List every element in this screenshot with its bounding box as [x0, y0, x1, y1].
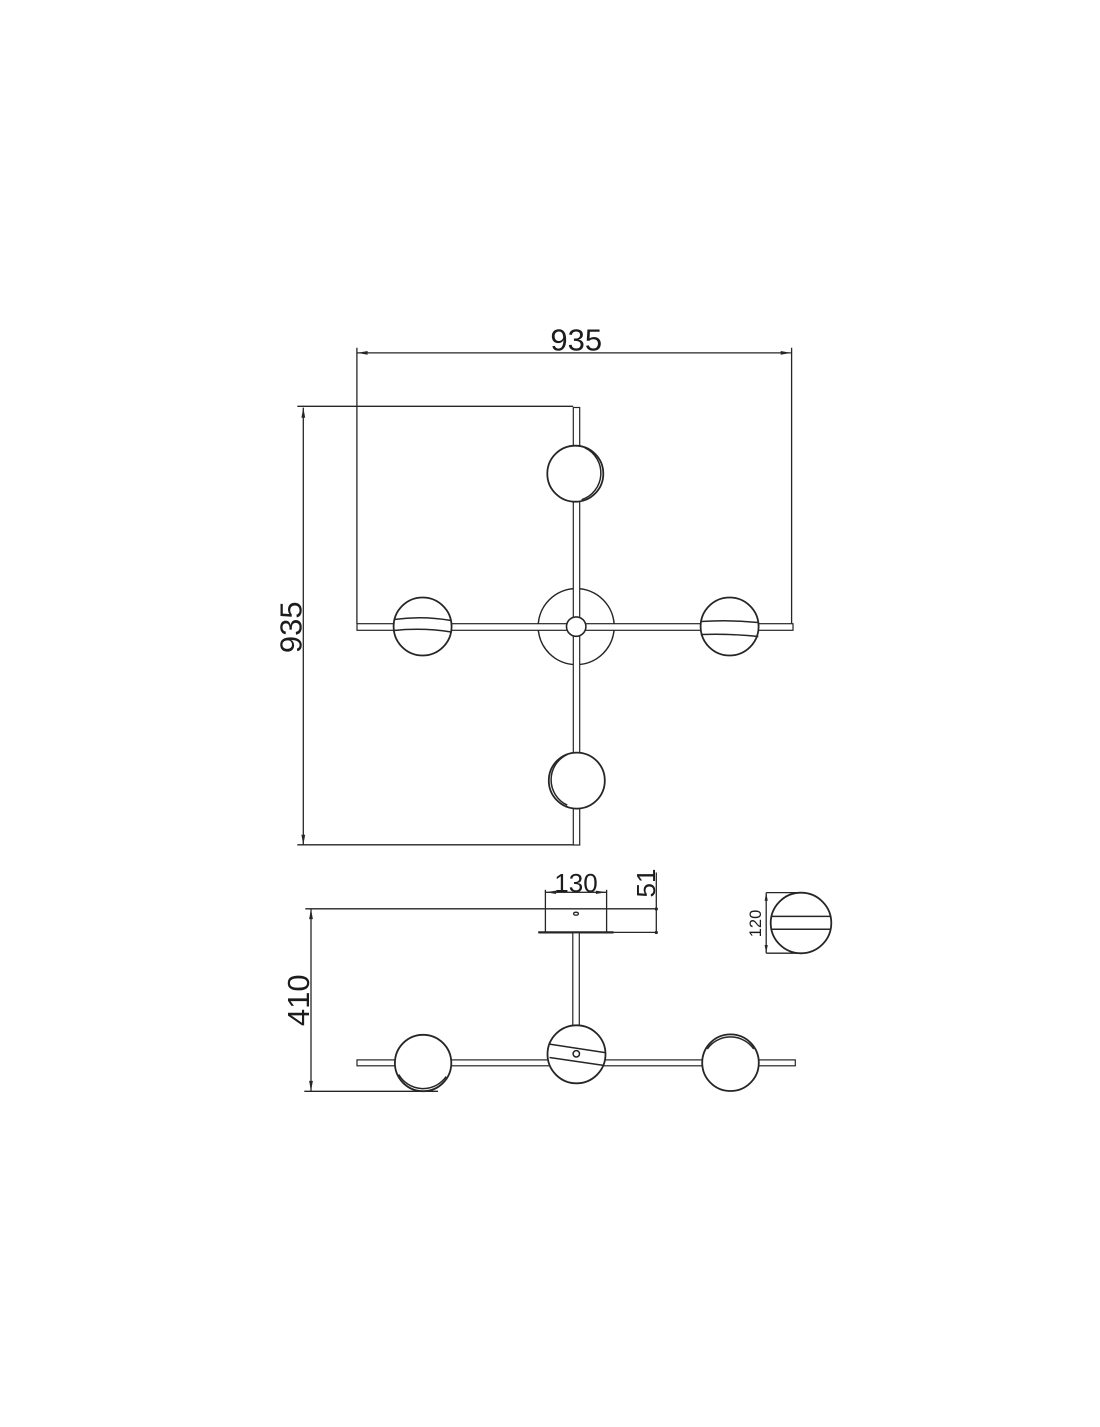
front view: canopy extension tick right: [606, 890, 608, 893]
front view: hub center pivot: [573, 1051, 579, 1057]
detail view: dimension 120 extension line bottom: [766, 952, 799, 954]
dimension 410: extension line bottom: [304, 1090, 438, 1092]
dimension 935 horizontal: extension line right: [791, 348, 793, 624]
top view: left sphere band upper line: [394, 618, 451, 621]
top view: hub outer circle: [538, 589, 614, 665]
front view: hub band lower line: [550, 1058, 605, 1066]
detail view: sphere band lower chord: [772, 928, 831, 930]
front view: left sphere: [395, 1035, 451, 1091]
front view: hub sphere: [548, 1025, 606, 1083]
detail view: dimension 120 bottom arrowhead: [765, 945, 768, 953]
top view: bottom sphere shading arc: [551, 754, 567, 805]
dimension 51: upper arrow junction: [655, 907, 658, 910]
dimension 935 horizontal: extension line left: [356, 348, 358, 624]
dimension 935 horizontal: dimension line: [357, 352, 791, 354]
dimension 410: bottom arrowhead: [309, 1081, 313, 1091]
dimension 935 vertical: extension line top: [297, 405, 573, 407]
svg-text:51: 51: [631, 869, 661, 898]
detail view: dimension 120 dimension line: [765, 893, 767, 954]
top view: right sphere band lower line: [701, 634, 759, 636]
dimension 130: right arrowhead: [596, 891, 606, 894]
svg-text:935: 935: [274, 601, 309, 653]
dimension 935 horizontal: left arrowhead: [357, 351, 367, 355]
top view: right sphere: [701, 598, 759, 656]
svg-text:935: 935: [550, 323, 602, 358]
dimension 51: dimension line: [655, 873, 657, 934]
detail view: dimension 120 extension line top: [766, 892, 799, 894]
top view: top sphere: [547, 446, 603, 502]
detail view: sphere band upper chord: [772, 915, 831, 917]
dimension 410: top arrowhead: [309, 909, 313, 919]
front view: left sphere shading arc: [399, 1075, 447, 1089]
top view: left sphere band lower line: [394, 629, 452, 632]
top view: right sphere band upper line: [701, 621, 758, 623]
front view: stem rod: [573, 933, 580, 1026]
dimension 130: left arrowhead: [546, 891, 556, 894]
front view: right sphere shading arc: [707, 1037, 753, 1049]
svg-text:120: 120: [747, 910, 765, 938]
svg-text:410: 410: [281, 974, 316, 1026]
front view: ceiling flange line: [538, 931, 656, 933]
front view: horizontal bar: [357, 1060, 795, 1066]
dimension 935 horizontal: right arrowhead: [781, 351, 791, 355]
front view: canopy extension tick left: [544, 890, 546, 893]
dimension 935 vertical: extension line bottom: [297, 844, 573, 846]
front view: hub band upper line: [549, 1044, 606, 1053]
dimension 410: dimension line: [310, 909, 312, 1091]
front view: canopy screw hole: [574, 912, 579, 915]
dimension 51: lower arrow junction: [655, 931, 658, 934]
top view: top sphere shading arc: [582, 448, 601, 500]
front view: right sphere: [702, 1034, 759, 1091]
detail view: dimension 120 top arrowhead: [765, 893, 768, 901]
dimension 410: extension line top / canopy mid line: [305, 908, 656, 910]
dimension 935 vertical: dimension line: [302, 408, 304, 845]
detail view: sphere: [771, 893, 832, 954]
top view: left sphere: [394, 598, 452, 656]
front view: canopy body: [545, 892, 606, 932]
svg-text:130: 130: [554, 868, 597, 898]
dimension 935 vertical: top arrowhead: [301, 408, 305, 418]
top view: vertical arm rod: [573, 408, 579, 846]
top view: bottom sphere: [549, 753, 605, 809]
top view: horizontal arm rod: [357, 624, 793, 631]
dimension 935 vertical: bottom arrowhead: [301, 835, 305, 845]
front view: ceiling flange thick segment: [538, 931, 613, 933]
top view: hub center small circle: [567, 617, 586, 636]
